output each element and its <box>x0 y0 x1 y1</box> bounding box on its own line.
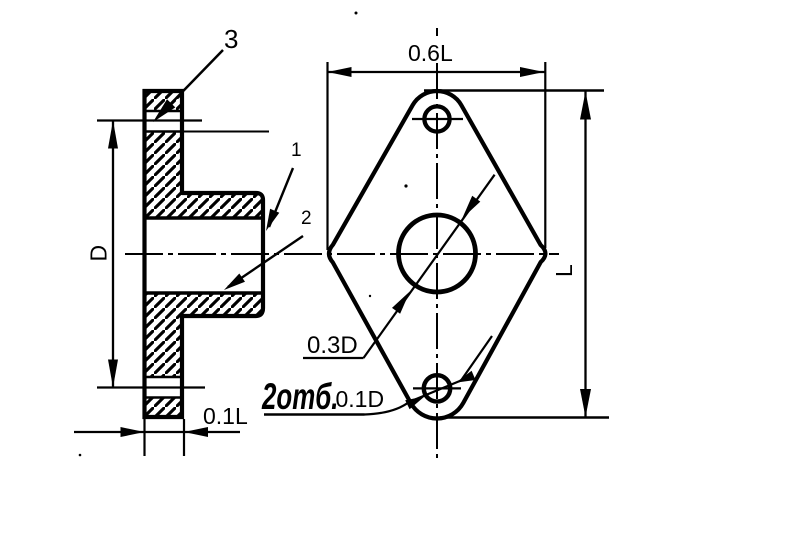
flange outline bottom edge <box>143 415 185 419</box>
svg-text:2omб.: 2omб. <box>261 375 338 417</box>
scan specks <box>404 184 407 187</box>
D dimension top extension line (top hole axis) <box>97 119 202 121</box>
0.1L arrow right <box>121 427 145 437</box>
svg-text:3: 3 <box>224 24 238 54</box>
svg-text:0.6L: 0.6L <box>408 40 453 66</box>
vertical centerline <box>436 63 438 458</box>
flange outline left face <box>142 89 146 419</box>
bottom hole dim arrow left <box>405 397 424 410</box>
hub outline <box>182 193 263 316</box>
curved leader from 2otv to bottom hole <box>365 336 493 415</box>
bottom bolt-hole section lines <box>143 377 185 398</box>
top hole horizontal centerline <box>412 118 463 120</box>
bore top line <box>143 216 264 220</box>
0.3D upper arrow <box>462 196 480 218</box>
leader 2 line <box>228 236 303 287</box>
L bottom extension line <box>440 416 609 418</box>
hatch region: upper L-shape (flange web + hub upper arm) <box>145 132 264 219</box>
svg-text:1: 1 <box>291 140 302 161</box>
leader 3 line <box>157 50 223 118</box>
0.6L extension line left <box>326 62 328 250</box>
0.1L dimension line <box>74 431 240 433</box>
hatch region: flange top band <box>145 91 183 111</box>
svg-text:L: L <box>551 264 577 277</box>
projection line from flange to right <box>184 131 269 133</box>
flange right face lower segment <box>180 314 184 419</box>
svg-text:0.1D: 0.1D <box>336 386 385 412</box>
L arrow down <box>580 389 591 417</box>
center hole 0.3D <box>399 215 476 292</box>
top bolt hole <box>424 106 449 131</box>
svg-text:D: D <box>86 245 112 262</box>
0.1L arrow left <box>184 427 208 437</box>
vertical centerline top dash <box>436 28 438 36</box>
leader 3 arrow <box>153 99 175 122</box>
D dimension line <box>112 121 114 388</box>
diamond outline <box>329 91 545 418</box>
svg-text:0.3D: 0.3D <box>307 332 358 359</box>
bottom hole dim arrow right <box>456 371 476 383</box>
svg-text:2: 2 <box>301 208 312 229</box>
bottom hole horizontal centerline <box>413 387 461 389</box>
L arrow up <box>580 92 591 120</box>
main horizontal centerline <box>125 253 559 255</box>
L dimension line <box>584 91 586 417</box>
0.3D underline <box>303 357 364 359</box>
0.3D leader diagonal line <box>364 175 495 358</box>
0.6L extension line right <box>544 62 546 248</box>
hatch region: lower L-shape (hub lower arm + flange web) <box>145 293 264 377</box>
D dimension arrow down <box>108 360 118 388</box>
flange outline top edge <box>143 89 185 93</box>
0.6L arrow right <box>520 67 544 77</box>
D dimension bottom extension line (bottom hole axis) <box>97 386 205 388</box>
2otv underline <box>264 413 365 415</box>
bore bottom line <box>143 291 264 295</box>
hatch region: flange bottom band <box>145 398 183 418</box>
0.6L dimension line <box>328 71 546 73</box>
svg-text:0.1L: 0.1L <box>203 403 248 429</box>
D dimension arrow up <box>108 121 118 149</box>
bottom bolt hole <box>424 375 450 401</box>
top bolt-hole section lines <box>143 111 185 132</box>
leader 1 arrow <box>266 209 279 231</box>
0.3D lower arrow <box>392 291 410 313</box>
0.1L extension lines <box>145 419 185 456</box>
leader 2 arrow <box>224 274 245 291</box>
flange right face upper segment <box>180 89 184 195</box>
0.6L arrow left <box>328 67 352 77</box>
leader 1 line <box>269 168 293 227</box>
L top extension line <box>424 89 604 91</box>
